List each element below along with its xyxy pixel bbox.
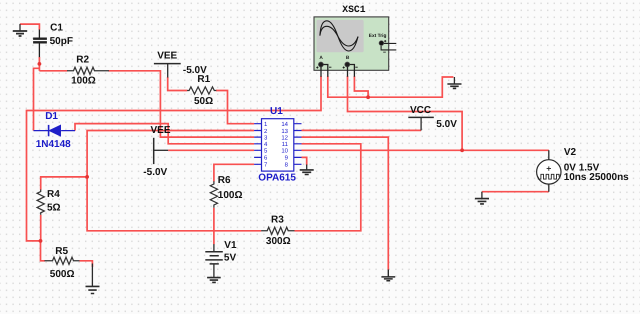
svg-text:A: A — [319, 55, 323, 61]
node C1-R2-D1 junction — [38, 62, 42, 66]
oscilloscope XSC1 — [314, 17, 396, 77]
wire ground to C1 top — [20, 24, 39, 30]
svg-text:5Ω: 5Ω — [47, 202, 61, 213]
ground at R5 — [86, 264, 100, 294]
wire R1 right to U1 pin 1 — [216, 91, 254, 124]
resistor R4 — [37, 190, 44, 215]
svg-text:OPA615: OPA615 — [258, 173, 296, 184]
power VEE top — [154, 64, 181, 78]
svg-text:C1: C1 — [50, 23, 63, 34]
wire R6 bottom to V1 plus — [213, 208, 215, 245]
svg-text:R2: R2 — [76, 55, 89, 66]
svg-text:R4: R4 — [47, 189, 60, 200]
power VEE middle (rotated) — [154, 138, 168, 164]
svg-text:VCC: VCC — [410, 105, 431, 116]
resistor R2 — [67, 67, 109, 74]
resistor R6 — [210, 181, 217, 207]
node R4-R5 junction — [39, 239, 43, 243]
U1 pin stubs right 14-8 — [294, 124, 302, 165]
svg-text:R6: R6 — [218, 175, 231, 186]
svg-text:V2: V2 — [564, 147, 577, 158]
scope sine trace 1 — [320, 21, 358, 51]
node output junction — [460, 148, 464, 152]
svg-text:R3: R3 — [271, 214, 284, 225]
svg-text:VEE: VEE — [157, 51, 177, 62]
ground at U1 pin 9 — [300, 165, 314, 175]
scope sine trace 2 — [320, 26, 358, 46]
svg-text:500Ω: 500Ω — [50, 269, 75, 280]
node scope A-/B- ground junction — [366, 95, 370, 99]
resistor R3 — [261, 227, 294, 234]
wire D1 anode to U1 pin 4 — [75, 124, 254, 144]
svg-text:14: 14 — [281, 121, 288, 128]
wire VEE mid to U1 pin 5 — [168, 149, 254, 151]
wire node to R2 left — [39, 70, 67, 72]
svg-text:V1: V1 — [224, 240, 237, 251]
wire VEE to R1 left — [168, 77, 188, 91]
scope terminal stubs — [321, 65, 354, 77]
svg-text:VEE: VEE — [151, 125, 171, 136]
svg-text:R1: R1 — [197, 74, 210, 85]
svg-text:Ext Trig: Ext Trig — [369, 33, 387, 39]
wire U1 pin 7 to R6 top — [214, 164, 254, 181]
capacitor C1 — [33, 30, 47, 58]
svg-text:10: 10 — [281, 148, 288, 155]
svg-text:B: B — [346, 55, 350, 61]
wire scope A- to ground — [328, 76, 454, 97]
wire node to R4 top — [41, 177, 87, 190]
ground at scope (right of oscilloscope) — [447, 77, 461, 88]
svg-text:50pF: 50pF — [50, 36, 73, 47]
svg-text:1N4148: 1N4148 — [36, 139, 71, 150]
op-amp U1 OPA615 body — [254, 119, 301, 171]
wire V2 minus to ground — [482, 191, 549, 193]
svg-text:11: 11 — [282, 141, 289, 148]
svg-text:12: 12 — [281, 134, 288, 141]
wire R5 right to ground — [80, 261, 93, 267]
ground at U1 pin 12 — [381, 270, 395, 281]
svg-text:13: 13 — [281, 128, 288, 135]
svg-text:100Ω: 100Ω — [218, 190, 243, 201]
wire scope B- to ground node — [354, 76, 368, 97]
ground top-left — [13, 24, 27, 36]
U1 pin stubs left 1-7 — [254, 124, 261, 165]
wire scope A+ rail to R4 node — [27, 76, 322, 241]
wire U1 pin 13 to VCC — [302, 129, 422, 131]
node pin2-R4 junction — [85, 175, 89, 179]
wire U1 pin 11 to R3 right — [295, 144, 361, 231]
resistor R1 — [187, 87, 216, 94]
svg-text:10ns 25000ns: 10ns 25000ns — [564, 172, 629, 183]
svg-text:50Ω: 50Ω — [194, 96, 213, 107]
ground at V2 — [475, 192, 489, 204]
wire U1 pin 12 to ground — [302, 137, 389, 270]
svg-text:5.0V: 5.0V — [436, 119, 457, 130]
svg-text:R5: R5 — [55, 246, 68, 257]
diode D1 — [34, 125, 76, 136]
wire U1 pin 9 to ground — [302, 157, 307, 165]
svg-text:300Ω: 300Ω — [266, 236, 291, 247]
wire node to D1 cathode — [34, 68, 40, 130]
svg-text:100Ω: 100Ω — [71, 76, 96, 87]
wire R2 right to U1 pin 3 — [108, 71, 254, 137]
wire scope B+ to output node — [348, 76, 463, 150]
ground at V1 — [207, 278, 221, 283]
svg-text:U1: U1 — [270, 106, 283, 117]
wire U1 pin 10 output to V2 plus — [302, 149, 549, 151]
svg-text:XSC1: XSC1 — [342, 4, 365, 15]
svg-text:5V: 5V — [224, 253, 237, 264]
wire R4 bottom to node — [40, 215, 42, 241]
power VCC — [408, 117, 434, 130]
resistor R5 — [45, 257, 80, 264]
wire C1 bottom to node — [38, 57, 40, 71]
battery V1 — [205, 244, 223, 277]
svg-text:D1: D1 — [45, 111, 58, 122]
svg-text:-5.0V: -5.0V — [143, 167, 167, 178]
wire U1 pin 2 long rail to R3 left — [87, 131, 261, 231]
wire node to R5 left — [41, 241, 46, 261]
pulse source V2 — [537, 150, 561, 191]
